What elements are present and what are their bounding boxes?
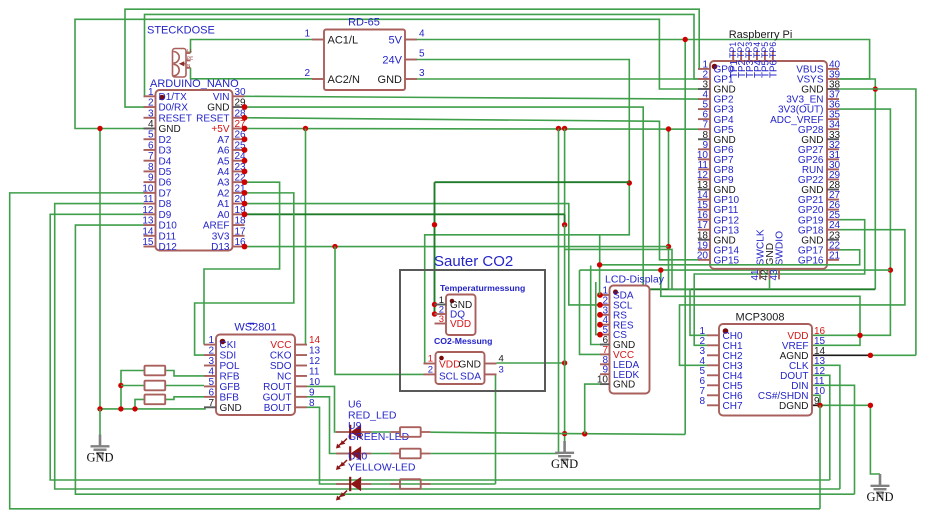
svg-text:D9: D9 — [159, 210, 172, 221]
wire gnd rail to MCP CH0 — [669, 289, 708, 335]
node junction +5V A0 riser — [562, 126, 567, 131]
node junction riser +5V — [666, 126, 671, 131]
resistor R rfb — [145, 366, 166, 376]
svg-text:24V: 24V — [382, 55, 402, 67]
svg-text:D12: D12 — [159, 242, 178, 253]
svg-text:GND: GND — [866, 490, 893, 504]
svg-text:3: 3 — [419, 68, 425, 79]
svg-text:SDO: SDO — [270, 361, 292, 372]
svg-text:GND: GND — [207, 103, 229, 114]
led U6 RED_LED — [336, 399, 397, 449]
node junction riser D13 — [666, 244, 671, 249]
wire LCD CS riser — [596, 282, 600, 335]
wire GOUT to green LED — [307, 397, 350, 454]
svg-text:14: 14 — [309, 335, 321, 346]
svg-text:5: 5 — [419, 49, 425, 60]
svg-text:WS2801: WS2801 — [234, 322, 276, 334]
wire D1/TX to RPi GP1 — [144, 14, 699, 96]
resistor R green — [390, 453, 400, 455]
wire MCP DGND black — [812, 404, 820, 406]
wire GP19 to MCP CH1 — [694, 220, 865, 346]
node junction +5V VCC riser — [303, 126, 308, 131]
svg-text:D3: D3 — [159, 146, 172, 157]
wire LCD GND6 riser — [591, 266, 600, 345]
wire RFB left lead — [121, 371, 145, 409]
svg-text:SWDIO: SWDIO — [775, 231, 786, 266]
svg-text:15: 15 — [142, 237, 154, 248]
svg-text:CO2-Messung: CO2-Messung — [434, 336, 492, 346]
svg-text:2: 2 — [208, 346, 214, 357]
wire MCP AGND green — [870, 354, 916, 356]
led U9 GREEN-LED — [336, 420, 410, 470]
svg-text:VCC: VCC — [270, 340, 291, 351]
svg-text:2: 2 — [304, 68, 310, 79]
node junction RFB GFB — [118, 383, 123, 388]
wire N to AC2/N — [191, 68, 313, 79]
node junction red LCD riser — [582, 431, 587, 436]
svg-text:+5V: +5V — [211, 124, 229, 135]
node junction SDA — [597, 262, 602, 267]
wire 3V3 rail to LCD VCC — [580, 269, 891, 271]
svg-text:13: 13 — [309, 346, 321, 357]
svg-text:AREF: AREF — [203, 221, 230, 232]
svg-text:BFB: BFB — [220, 392, 240, 403]
svg-text:VDD: VDD — [439, 360, 461, 371]
svg-text:RESET: RESET — [159, 113, 192, 124]
svg-text:D8: D8 — [159, 199, 172, 210]
svg-text:GND: GND — [159, 124, 181, 135]
svg-text:AC2/N: AC2/N — [328, 74, 360, 86]
svg-text:AC1/L: AC1/L — [328, 35, 359, 47]
svg-text:3: 3 — [208, 356, 214, 367]
wire A2 to WS SDI — [195, 193, 294, 355]
wire +5V to green LED row — [558, 128, 560, 453]
svg-text:TP6: TP6 — [769, 59, 780, 78]
wire green LED row right — [371, 453, 559, 455]
wire D0/RX to RPi GP0 — [125, 9, 699, 107]
wire GFB left lead — [121, 385, 145, 387]
wire MCP DOUT down — [812, 375, 830, 480]
svg-text:4: 4 — [148, 119, 154, 130]
wire DGND riser to D7 rail — [819, 405, 821, 509]
node junction DGND left — [817, 403, 822, 408]
svg-text:7: 7 — [148, 151, 154, 162]
svg-text:D7: D7 — [159, 188, 172, 199]
svg-text:1: 1 — [208, 335, 214, 346]
svg-text:GOUT: GOUT — [263, 392, 292, 403]
svg-text:A7: A7 — [217, 135, 230, 146]
svg-text:Sauter CO2: Sauter CO2 — [434, 253, 513, 270]
wire RPi GND42 riser — [769, 279, 771, 289]
svg-text:A0: A0 — [217, 210, 230, 221]
wire D8 rail — [55, 204, 840, 489]
svg-text:A3: A3 — [217, 178, 230, 189]
svg-text:CH7: CH7 — [723, 401, 743, 412]
svg-text:BOUT: BOUT — [264, 403, 292, 414]
svg-text:D2: D2 — [159, 135, 172, 146]
wire GFB right lead — [166, 385, 204, 387]
svg-text:3: 3 — [148, 108, 154, 119]
svg-text:9: 9 — [814, 396, 820, 407]
node temperatur DQ attach — [432, 311, 437, 316]
svg-text:21: 21 — [829, 250, 841, 261]
sensor CO2-Messung — [424, 336, 504, 384]
ground GND middle — [555, 441, 574, 463]
node junction VREF line270 — [658, 267, 663, 272]
svg-text:D11: D11 — [159, 231, 177, 242]
svg-text:14: 14 — [142, 226, 154, 237]
svg-text:7: 7 — [208, 398, 214, 409]
svg-text:5: 5 — [148, 130, 154, 141]
svg-text:12: 12 — [309, 356, 321, 367]
svg-text:6: 6 — [208, 387, 214, 398]
node junction +5V green riser — [556, 126, 561, 131]
resistor R yellow — [390, 483, 400, 485]
svg-text:GND: GND — [458, 360, 481, 371]
wire Arduino GND4 to RPi GND3 — [75, 19, 698, 128]
power supply RD-65 — [304, 17, 425, 91]
svg-text:6: 6 — [148, 140, 154, 151]
wire RPi GND38 to MCP AGND — [839, 89, 916, 355]
svg-text:8: 8 — [699, 396, 705, 407]
wire A1 to LCD SCL — [245, 204, 601, 305]
svg-text:D13: D13 — [211, 242, 230, 253]
ground GND right — [871, 474, 890, 496]
wire MCP AGND black — [812, 354, 870, 356]
svg-text:4: 4 — [208, 366, 214, 377]
svg-text:RD-65: RD-65 — [348, 17, 380, 29]
svg-text:GND: GND — [220, 403, 242, 414]
svg-text:TP6: TP6 — [768, 42, 778, 58]
wire MCP DIN down — [812, 385, 855, 494]
node junction RD65GND RPiGND38 — [873, 86, 878, 91]
svg-text:D5: D5 — [159, 167, 172, 178]
wire CO2 GND to gnd riser — [497, 362, 565, 364]
wire A0 dark row — [245, 213, 565, 215]
wire 5V to RPi VSYS — [417, 40, 870, 79]
wire +5V rail to RPi GP5 — [245, 127, 699, 130]
svg-text:A1: A1 — [217, 199, 230, 210]
svg-text:9: 9 — [148, 173, 154, 184]
wire A3 to WS CKI — [204, 182, 280, 344]
wire GND4 branch to resistor bus — [99, 129, 101, 409]
wire MCP DGND to GND symbol — [820, 405, 880, 474]
node junction 24V temperatur — [627, 180, 632, 185]
wire resistor gnd bus — [100, 407, 205, 409]
wire GP17 to LCD SDA — [600, 250, 860, 295]
svg-text:PE: PE — [187, 55, 193, 60]
svg-text:3: 3 — [439, 314, 444, 325]
svg-text:D6: D6 — [159, 178, 172, 189]
module group Sauter CO2 — [400, 253, 545, 391]
svg-text:11: 11 — [143, 194, 154, 205]
svg-text:CKO: CKO — [270, 351, 292, 362]
node junction GND4 branch — [97, 126, 102, 131]
wire rail 249 to CH0 riser — [565, 249, 672, 289]
svg-text:DGND: DGND — [779, 401, 808, 412]
wire VDD rail to LCD SDA drop — [599, 235, 601, 265]
svg-text:A2: A2 — [217, 188, 230, 199]
wire VIN to RPi GP2 — [245, 96, 699, 99]
node junction 3V3 line270 — [888, 267, 893, 272]
node junction temperatur pair — [432, 222, 437, 227]
adc MCP3008 — [699, 312, 825, 416]
svg-text:17: 17 — [235, 226, 247, 237]
svg-text:SDI: SDI — [220, 351, 237, 362]
svg-text:1: 1 — [304, 29, 310, 40]
wire BFB right lead — [166, 397, 204, 400]
svg-text:RESET: RESET — [196, 113, 229, 124]
svg-text:10: 10 — [597, 375, 609, 386]
svg-text:3V3: 3V3 — [212, 231, 230, 242]
sbc Raspberry Pi — [697, 29, 841, 281]
wire red LED row right — [371, 432, 685, 434]
svg-text:STECKDOSE: STECKDOSE — [147, 25, 215, 37]
wire MCP CLK down — [812, 365, 840, 489]
svg-text:2: 2 — [148, 98, 154, 109]
svg-text:D1/TX: D1/TX — [159, 92, 188, 103]
svg-text:Raspberry Pi: Raspberry Pi — [729, 29, 793, 41]
node temperatur GND attach — [432, 302, 437, 307]
svg-text:9: 9 — [309, 387, 315, 398]
node junction bus 2 — [118, 406, 123, 411]
svg-text:13: 13 — [142, 216, 154, 227]
wire yellow LED row right — [371, 483, 496, 485]
svg-text:YELLOW-LED: YELLOW-LED — [348, 462, 416, 474]
wire Sauter SDA down to yellow row — [496, 374, 497, 484]
node junction VREF crossing VDD — [857, 333, 862, 338]
svg-text:12: 12 — [142, 205, 154, 216]
display LCD-Display — [597, 274, 665, 394]
svg-text:Temperaturmessung: Temperaturmessung — [440, 283, 525, 293]
wire GND29 to dark gnd rail — [245, 107, 644, 289]
svg-text:GND: GND — [613, 380, 635, 391]
wire RFB right lead — [166, 371, 204, 376]
node junction D13 branch — [332, 244, 337, 249]
svg-text:10: 10 — [142, 183, 154, 194]
node junction AGND — [868, 353, 873, 358]
wire temperatur pair horizontal — [435, 181, 630, 183]
led driver WS2801 — [204, 322, 321, 416]
svg-text:ROUT: ROUT — [263, 382, 291, 393]
wire RD-65 GND right run — [417, 79, 875, 289]
svg-text:GND: GND — [551, 457, 578, 471]
wire 24V to Sauter VDD — [417, 60, 629, 364]
svg-text:RFB: RFB — [220, 372, 240, 383]
svg-text:D10: D10 — [159, 221, 178, 232]
wire GP18 to MCP CH3 — [680, 230, 905, 366]
svg-text:20: 20 — [697, 250, 709, 261]
wire gnd stem left — [99, 409, 101, 435]
svg-text:8: 8 — [309, 398, 315, 409]
svg-text:MCP3008: MCP3008 — [736, 312, 785, 324]
svg-text:D0/RX: D0/RX — [159, 103, 189, 114]
svg-text:N: N — [187, 63, 190, 68]
wire dark GND run below RPi — [643, 288, 875, 290]
node junction 5V branch — [683, 37, 688, 42]
svg-text:A5: A5 — [217, 156, 230, 167]
led U10 YELLOW-LED — [336, 451, 416, 501]
wire temperatur pair vertical — [434, 182, 436, 314]
svg-text:CKI: CKI — [220, 340, 237, 351]
svg-text:GND: GND — [378, 74, 403, 86]
svg-text:VIN: VIN — [213, 92, 230, 103]
wire 5V branch down to red LED row — [684, 40, 686, 435]
resistor R bfb — [145, 395, 166, 405]
svg-text:3: 3 — [499, 364, 504, 375]
wire 3V3OUT to MCP VDD — [812, 109, 890, 335]
resistor R gfb — [145, 381, 166, 391]
node junction bus 3 — [132, 406, 137, 411]
wire A0 riser upper — [564, 128, 566, 214]
node junction DGND right — [868, 403, 873, 408]
svg-text:30: 30 — [235, 87, 247, 98]
svg-text:11: 11 — [309, 366, 320, 377]
svg-text:GND: GND — [86, 450, 113, 464]
wire LCD VCC riser — [580, 270, 601, 354]
svg-text:ARDUINO_NANO: ARDUINO_NANO — [150, 78, 239, 90]
svg-text:10: 10 — [309, 377, 321, 388]
svg-text:4: 4 — [499, 354, 504, 365]
wire L1 to AC1/L — [191, 40, 313, 54]
wire D13 branch to Sauter SCL — [335, 247, 424, 375]
svg-text:A6: A6 — [217, 146, 230, 157]
svg-text:POL: POL — [220, 361, 240, 372]
svg-text:D4: D4 — [159, 156, 172, 167]
mcu ARDUINO_NANO — [142, 78, 247, 253]
svg-text:GFB: GFB — [220, 382, 241, 393]
node junction A0 +5V — [562, 222, 567, 227]
svg-text:LCD-Display: LCD-Display — [605, 274, 665, 286]
svg-text:2: 2 — [428, 364, 433, 375]
wire ROUT to red LED — [307, 386, 350, 432]
node junction bus 1 — [97, 406, 102, 411]
svg-text:NC: NC — [277, 372, 291, 383]
svg-text:5V: 5V — [389, 35, 403, 47]
wire BOUT to yellow LED — [307, 407, 350, 484]
svg-text:4: 4 — [419, 29, 425, 40]
wire D9 rail — [50, 214, 830, 480]
wire D13 to riser — [245, 246, 669, 248]
wire A0 down to red row and GND — [564, 225, 566, 441]
node junction CO2 GND — [562, 360, 567, 365]
wire D10 rail — [75, 225, 854, 494]
ground GND left — [91, 435, 110, 457]
resistor R red — [390, 431, 400, 433]
wire D7 rail — [10, 193, 820, 509]
svg-text:5: 5 — [208, 377, 214, 388]
wire LCD GND10 to red row — [585, 384, 600, 434]
svg-text:SCL: SCL — [439, 372, 459, 383]
wire +5V to WS2801 VCC — [305, 128, 307, 344]
svg-text:43: 43 — [769, 269, 780, 281]
sensor Temperaturmessung — [435, 295, 476, 336]
svg-text:SDA: SDA — [460, 372, 481, 383]
wire RESET28 to RPi GP15 — [245, 118, 699, 260]
wire MCP CS#/SHDN jog — [812, 395, 820, 405]
wire A0 overlap segment — [564, 214, 566, 224]
svg-text:A4: A4 — [217, 167, 230, 178]
svg-text:1: 1 — [428, 354, 433, 365]
node junction red row riser — [562, 431, 567, 436]
wire BFB left lead — [135, 399, 145, 409]
connector STECKDOSE — [147, 25, 215, 78]
svg-text:VDD: VDD — [450, 319, 471, 330]
wire +5V/D13 riser to gnd rail — [668, 129, 670, 289]
svg-text:L1: L1 — [187, 48, 193, 53]
svg-text:1: 1 — [148, 87, 154, 98]
svg-text:8: 8 — [148, 162, 154, 173]
wire MCP VREF riser — [661, 270, 860, 345]
